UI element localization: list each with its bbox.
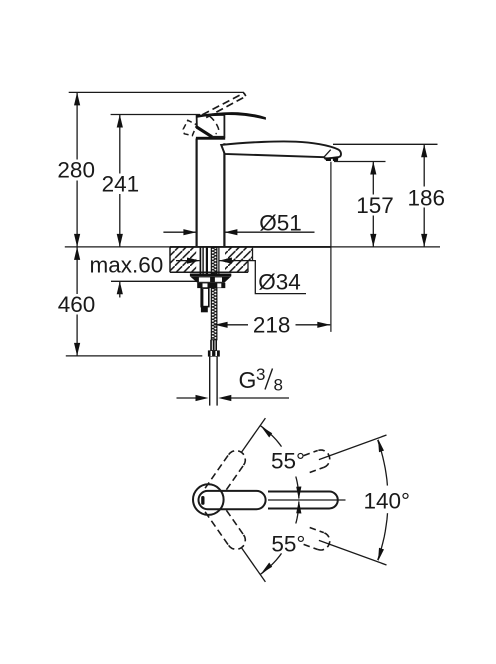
lower 55 arc segment near centre line: [296, 502, 299, 524]
lower 55 arc arrow at ray: [261, 563, 272, 574]
spout outline (top view): [268, 492, 338, 509]
spout left seam: [221, 145, 224, 154]
countertop hatched section left of faucet: [170, 248, 196, 273]
dimension 280 bottom arrow: [74, 234, 80, 247]
lower 55 arc arrow at centre line: [296, 500, 301, 513]
dimension 460 vertical line: [76, 247, 78, 356]
threaded shank lines through counter: [200, 248, 219, 274]
svg-text:241: 241: [102, 171, 140, 196]
svg-text:55°: 55°: [271, 532, 305, 557]
Ø51 right arrow: [224, 229, 237, 235]
lifted lever back end (dashed diamond): [183, 120, 197, 135]
Ø34 arrows at shank: [176, 260, 200, 262]
braided hose upper section: [211, 248, 217, 274]
dimension 460 top arrow: [74, 247, 80, 260]
svg-text:8: 8: [274, 376, 283, 395]
lifted lever tip: [244, 93, 246, 96]
extension line hose end (460 ref): [66, 355, 203, 357]
svg-text:3: 3: [256, 365, 265, 384]
spout head seam diagonal: [324, 150, 331, 158]
55 deg ray lower: [241, 548, 265, 582]
extension line top of handle cap (241 ref): [111, 114, 200, 116]
dashed spout swung down 55 deg: [205, 501, 245, 549]
max.60 up arrow: [117, 281, 123, 294]
svg-text:157: 157: [356, 193, 394, 218]
countertop right break edge: [248, 247, 253, 272]
handle cap thick lower-left edge: [197, 127, 212, 137]
dashed spout swung up 55 deg: [205, 451, 245, 499]
dashed spout tip at upper swivel stop: [304, 450, 330, 473]
dimension 218 horizontal line: [215, 324, 331, 326]
dimension 186 vertical line: [423, 144, 425, 247]
handle stadium (top view): [199, 491, 266, 509]
max.60 lower reference line: [111, 280, 200, 282]
upper 55 arc segment near ray: [260, 426, 281, 447]
hidden lever edge inside cap (dashed): [210, 116, 219, 134]
upper 55 arc segment near centre line: [296, 477, 299, 499]
lifted lever position (dashed) lower edge: [206, 96, 245, 117]
dimension Ø51 line with arrows at body base: [163, 231, 314, 233]
svg-text:G: G: [239, 367, 257, 393]
upper 55 arc arrow at ray: [261, 426, 272, 437]
svg-text:140°: 140°: [364, 488, 411, 513]
svg-text:Ø34: Ø34: [258, 270, 301, 295]
140 deg ray lower: [319, 540, 387, 565]
faucet body column: [197, 139, 225, 247]
140 arc bottom arrow: [378, 548, 384, 561]
cone washer: [190, 276, 231, 283]
spout outlet reference vertical line: [330, 162, 332, 332]
dashed spout tip at lower swivel stop: [304, 528, 330, 551]
dimension 186 top arrow: [421, 144, 427, 157]
body top seam band: [196, 137, 225, 140]
140 arc top arrow: [378, 439, 384, 452]
dimension 241 top arrow: [117, 115, 123, 128]
dimension 186 bottom arrow: [421, 234, 427, 247]
140 arc lower segment: [378, 513, 388, 560]
mounting nut: [197, 283, 225, 288]
svg-text:280: 280: [57, 158, 95, 183]
svg-text:186: 186: [408, 186, 446, 211]
Ø34 leader line: [219, 261, 306, 294]
countertop underside line: [170, 271, 248, 273]
extension line 157 (outlet underside): [334, 161, 386, 163]
dimension 280 top arrow: [74, 92, 80, 105]
svg-text:460: 460: [58, 292, 96, 317]
countertop hatched section right of faucet: [225, 248, 253, 273]
lever blade (horizontal position): [196, 112, 266, 120]
svg-text:218: 218: [253, 313, 291, 338]
washer plate: [190, 274, 231, 277]
spout: [221, 141, 341, 158]
140 deg ray upper: [319, 435, 387, 460]
hose fitting collar (ribbed): [210, 340, 217, 351]
countertop left edge: [169, 247, 171, 272]
lifted lever position (dashed) upper edge: [202, 93, 243, 115]
218 left arrow: [215, 322, 228, 328]
handle front mark inside circle: [201, 496, 204, 505]
extension line 186 (spout top): [333, 143, 438, 145]
dimension 157 bottom arrow: [370, 234, 376, 247]
braided hose lower section: [211, 288, 217, 340]
dimension G3/8 line with arrows at tube: [177, 397, 197, 399]
dimension 460 bottom arrow: [74, 343, 80, 356]
svg-text:55°: 55°: [271, 449, 305, 474]
dimension 280 vertical line: [76, 92, 78, 247]
extension line top of lifted lever (280 ref): [69, 91, 244, 93]
aerator / mousseur: [325, 157, 338, 161]
faucet body circle (top view): [193, 484, 224, 515]
lower 55 arc segment near ray: [260, 553, 281, 574]
handle cap: [197, 115, 225, 137]
label G 3/8: [239, 365, 283, 395]
supply tube: [210, 357, 217, 406]
G3/8 hex nut: [208, 350, 220, 356]
dimension 241 vertical line: [119, 115, 121, 247]
upper 55 arc arrow at centre line: [296, 487, 301, 500]
countertop top line: [65, 246, 440, 248]
spout centre line: [268, 499, 346, 501]
218 right arrow: [317, 322, 330, 328]
140 arc upper segment: [378, 440, 388, 486]
svg-text:max.60: max.60: [90, 252, 164, 277]
dimension 241 bottom arrow (shared with max.60 top): [117, 234, 123, 247]
55 deg ray upper: [241, 418, 265, 452]
Ø51 left arrow: [183, 229, 196, 235]
mounting stud end block: [201, 307, 208, 313]
mounting stud: [201, 288, 209, 307]
dimension 157 vertical line: [372, 162, 374, 247]
dimension 157 top arrow: [370, 162, 376, 175]
svg-text:Ø51: Ø51: [259, 210, 302, 235]
